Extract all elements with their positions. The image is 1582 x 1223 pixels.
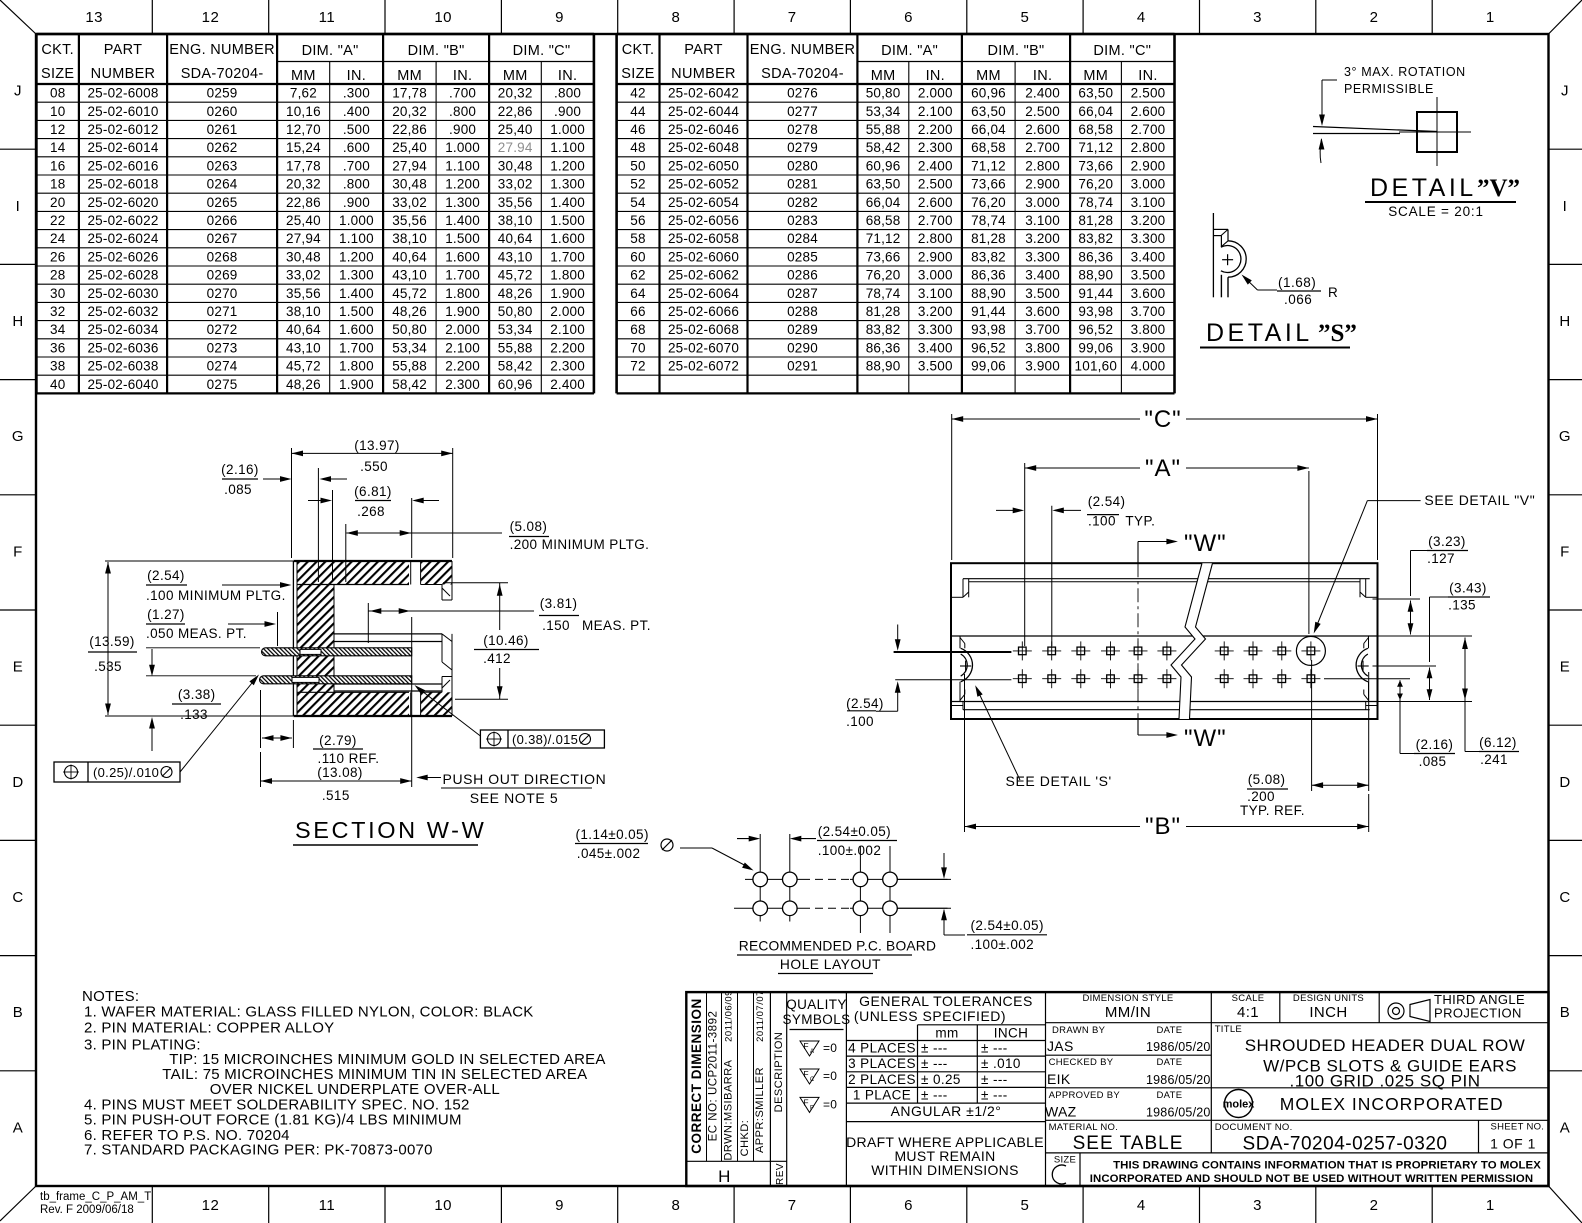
- svg-text:F: F: [803, 1097, 808, 1107]
- svg-text:2.900: 2.900: [918, 249, 953, 264]
- svg-text:1.900: 1.900: [445, 304, 480, 319]
- svg-text:0271: 0271: [207, 304, 238, 319]
- svg-text:2011/07/07: 2011/07/07: [755, 990, 766, 1042]
- svg-text:molex: molex: [1223, 1099, 1256, 1111]
- svg-text:25-02-6010: 25-02-6010: [87, 104, 158, 119]
- svg-text:3.000: 3.000: [1131, 177, 1166, 192]
- svg-text:SEE TABLE: SEE TABLE: [1073, 1133, 1184, 1154]
- svg-text:4: 4: [1137, 9, 1146, 26]
- svg-text:25-02-6062: 25-02-6062: [668, 268, 739, 283]
- svg-text:1.000: 1.000: [339, 213, 374, 228]
- svg-text:DIM. "C": DIM. "C": [513, 43, 571, 59]
- svg-text:11: 11: [319, 9, 336, 26]
- svg-text:25-02-6052: 25-02-6052: [668, 177, 739, 192]
- svg-text:DETAIL: DETAIL: [1206, 319, 1313, 347]
- svg-text:7,62: 7,62: [290, 86, 317, 101]
- svg-text:± ---: ± ---: [981, 1041, 1008, 1056]
- svg-text:78,74: 78,74: [866, 286, 901, 301]
- svg-text:(1.68): (1.68): [1278, 275, 1316, 290]
- svg-text:68: 68: [630, 322, 645, 337]
- svg-text:30,48: 30,48: [286, 249, 321, 264]
- svg-text:15,24: 15,24: [286, 140, 321, 155]
- svg-text:0281: 0281: [787, 177, 818, 192]
- svg-text:SIZE: SIZE: [41, 66, 74, 82]
- svg-text:44: 44: [630, 104, 646, 119]
- svg-text:13: 13: [85, 9, 103, 26]
- svg-text:DIM. "A": DIM. "A": [881, 43, 938, 59]
- svg-text:3.200: 3.200: [1131, 213, 1166, 228]
- svg-text:0260: 0260: [207, 104, 238, 119]
- svg-text:30: 30: [50, 286, 65, 301]
- svg-text:1. WAFER MATERIAL: GLASS FILLE: 1. WAFER MATERIAL: GLASS FILLED NYLON, C…: [84, 1003, 534, 1020]
- svg-text:.412: .412: [483, 651, 511, 666]
- svg-text:20,32: 20,32: [392, 104, 427, 119]
- svg-text:2.900: 2.900: [1131, 158, 1166, 173]
- svg-text:12: 12: [202, 1197, 220, 1214]
- svg-text:CKT.: CKT.: [41, 42, 74, 58]
- svg-text:DOCUMENT NO.: DOCUMENT NO.: [1215, 1122, 1293, 1133]
- svg-text:43,10: 43,10: [392, 268, 427, 283]
- svg-text:72: 72: [630, 359, 645, 374]
- svg-text:99,06: 99,06: [971, 359, 1006, 374]
- svg-text:APPR:SMILLER: APPR:SMILLER: [754, 1067, 766, 1153]
- svg-text:ANGULAR ±1/2°: ANGULAR ±1/2°: [891, 1103, 1002, 1119]
- svg-text:2.500: 2.500: [918, 177, 953, 192]
- svg-text:76,20: 76,20: [866, 268, 901, 283]
- svg-text:1.800: 1.800: [550, 268, 585, 283]
- svg-text:”V”: ”V”: [1477, 175, 1520, 202]
- svg-text:"W": "W": [1184, 530, 1227, 557]
- svg-text:35,56: 35,56: [286, 286, 321, 301]
- svg-text:2.300: 2.300: [918, 140, 953, 155]
- svg-text:RECOMMENDED P.C. BOARD: RECOMMENDED P.C. BOARD: [739, 939, 936, 954]
- svg-text:.045±.002: .045±.002: [577, 846, 641, 861]
- svg-text:1.200: 1.200: [339, 249, 374, 264]
- svg-text:3.400: 3.400: [918, 340, 953, 355]
- svg-text:46: 46: [630, 122, 645, 137]
- svg-text:53,34: 53,34: [498, 322, 533, 337]
- svg-text:H: H: [1559, 313, 1570, 330]
- svg-text:SHEET NO.: SHEET NO.: [1491, 1122, 1545, 1133]
- svg-text:48,26: 48,26: [498, 286, 533, 301]
- svg-text:.085: .085: [1419, 754, 1447, 769]
- svg-text:± ---: ± ---: [921, 1041, 948, 1056]
- svg-text:96,52: 96,52: [971, 340, 1006, 355]
- svg-text:25-02-6060: 25-02-6060: [668, 249, 739, 264]
- svg-text:25-02-6030: 25-02-6030: [87, 286, 158, 301]
- svg-text:9: 9: [555, 1197, 564, 1214]
- svg-text:E: E: [1560, 659, 1571, 676]
- svg-text:52: 52: [630, 177, 645, 192]
- svg-text:TITLE: TITLE: [1215, 1024, 1242, 1035]
- svg-text:81,28: 81,28: [971, 231, 1006, 246]
- svg-text:2 PLACES: 2 PLACES: [848, 1072, 916, 1087]
- svg-text:1.100: 1.100: [339, 231, 374, 246]
- svg-text:22,86: 22,86: [392, 122, 427, 137]
- svg-text:SIZE: SIZE: [1054, 1155, 1076, 1166]
- svg-text:1.400: 1.400: [445, 213, 480, 228]
- svg-text:1.800: 1.800: [445, 286, 480, 301]
- svg-text:27,94: 27,94: [286, 231, 321, 246]
- svg-text:34: 34: [50, 322, 66, 337]
- svg-text:0268: 0268: [207, 249, 238, 264]
- svg-text:NUMBER: NUMBER: [671, 66, 736, 82]
- svg-text:42: 42: [630, 86, 645, 101]
- svg-text:(1.27): (1.27): [147, 607, 185, 622]
- svg-text:25-02-6012: 25-02-6012: [87, 122, 158, 137]
- svg-text:25,40: 25,40: [286, 213, 321, 228]
- svg-text:81,28: 81,28: [866, 304, 901, 319]
- svg-text:12,70: 12,70: [286, 122, 321, 137]
- svg-text:1.300: 1.300: [445, 195, 480, 210]
- svg-text:2.200: 2.200: [550, 340, 585, 355]
- svg-text:.700: .700: [343, 158, 370, 173]
- svg-text:SYMBOLS: SYMBOLS: [782, 1012, 850, 1027]
- svg-text:(6.12): (6.12): [1479, 735, 1517, 750]
- svg-text:0265: 0265: [207, 195, 238, 210]
- svg-text:DATE: DATE: [1157, 1025, 1183, 1036]
- svg-text:3: 3: [1253, 1197, 1262, 1214]
- svg-text:0267: 0267: [207, 231, 238, 246]
- svg-text:25-02-6020: 25-02-6020: [87, 195, 158, 210]
- svg-text:± ---: ± ---: [981, 1072, 1008, 1087]
- svg-text:1.000: 1.000: [550, 122, 585, 137]
- svg-text:.515: .515: [322, 788, 350, 803]
- svg-text:25,40: 25,40: [392, 140, 427, 155]
- svg-text:43,10: 43,10: [286, 340, 321, 355]
- svg-text:83,82: 83,82: [971, 249, 1006, 264]
- svg-text:25-02-6016: 25-02-6016: [87, 158, 158, 173]
- svg-text:73,66: 73,66: [971, 177, 1006, 192]
- svg-text:SDA-70204-: SDA-70204-: [761, 66, 844, 82]
- svg-text:2011/06/09: 2011/06/09: [724, 990, 735, 1042]
- svg-text:25-02-6022: 25-02-6022: [87, 213, 158, 228]
- svg-text:3.000: 3.000: [918, 268, 953, 283]
- svg-text:I: I: [1563, 198, 1568, 215]
- svg-text:27.94: 27.94: [498, 140, 533, 155]
- svg-text:18: 18: [50, 177, 65, 192]
- svg-text:10: 10: [50, 104, 65, 119]
- svg-text:1.000: 1.000: [445, 140, 480, 155]
- svg-text:25-02-6036: 25-02-6036: [87, 340, 158, 355]
- svg-text:SIZE: SIZE: [621, 66, 654, 82]
- svg-text:25-02-6024: 25-02-6024: [87, 231, 158, 246]
- svg-text:.133: .133: [180, 707, 208, 722]
- svg-text:25-02-6038: 25-02-6038: [87, 359, 158, 374]
- svg-text:55,88: 55,88: [392, 359, 427, 374]
- svg-text:38: 38: [50, 359, 65, 374]
- svg-text:.241: .241: [1480, 752, 1508, 767]
- svg-text:CHKD:: CHKD:: [739, 1120, 751, 1157]
- svg-text:2.600: 2.600: [918, 195, 953, 210]
- svg-text:C: C: [1559, 889, 1570, 906]
- svg-text:2.500: 2.500: [1025, 104, 1060, 119]
- svg-text:12: 12: [202, 9, 220, 26]
- svg-text:5: 5: [1020, 1197, 1029, 1214]
- svg-text:DIM. "C": DIM. "C": [1093, 43, 1151, 59]
- svg-text:35,56: 35,56: [392, 213, 427, 228]
- svg-text:3.700: 3.700: [1131, 304, 1166, 319]
- svg-text:EC NO: UCP2011-3892: EC NO: UCP2011-3892: [708, 1011, 720, 1142]
- svg-text:3° MAX. ROTATION: 3° MAX. ROTATION: [1344, 65, 1466, 79]
- svg-text:33,02: 33,02: [286, 268, 321, 283]
- svg-text:.085: .085: [224, 482, 252, 497]
- svg-text:D: D: [1559, 774, 1570, 791]
- svg-text:71,12: 71,12: [866, 231, 901, 246]
- svg-text:1.500: 1.500: [550, 213, 585, 228]
- svg-text:CORRECT DIMENSION: CORRECT DIMENSION: [689, 998, 704, 1154]
- svg-text:MM: MM: [503, 68, 528, 84]
- svg-text:.500: .500: [343, 122, 370, 137]
- svg-text:48,26: 48,26: [286, 377, 321, 392]
- svg-text:0261: 0261: [207, 122, 238, 137]
- svg-text:2.600: 2.600: [1025, 122, 1060, 137]
- svg-text:IN.: IN.: [453, 68, 472, 84]
- svg-text:3.400: 3.400: [1025, 268, 1060, 283]
- svg-text:93,98: 93,98: [1078, 304, 1113, 319]
- svg-text:A: A: [13, 1119, 24, 1136]
- svg-text:=0: =0: [823, 1069, 837, 1083]
- svg-text:101,60: 101,60: [1075, 359, 1118, 374]
- svg-text:.200 MINIMUM PLTG.: .200 MINIMUM PLTG.: [510, 537, 650, 552]
- svg-text:1986/05/20: 1986/05/20: [1146, 1106, 1211, 1120]
- svg-text:2.700: 2.700: [1025, 140, 1060, 155]
- svg-text:0278: 0278: [787, 122, 818, 137]
- svg-text:MM: MM: [976, 68, 1001, 84]
- svg-text:6: 6: [904, 1197, 913, 1214]
- svg-text:0288: 0288: [787, 304, 818, 319]
- svg-text:83,82: 83,82: [866, 322, 901, 337]
- svg-text:(13.97): (13.97): [354, 438, 400, 453]
- svg-text:2.100: 2.100: [445, 340, 480, 355]
- svg-text:(2.54±0.05): (2.54±0.05): [818, 824, 891, 839]
- svg-text:2.800: 2.800: [1025, 158, 1060, 173]
- svg-text:25,40: 25,40: [498, 122, 533, 137]
- svg-text:1: 1: [1486, 1197, 1495, 1214]
- svg-text:R: R: [1328, 285, 1338, 300]
- svg-text:DATE: DATE: [1157, 1090, 1183, 1101]
- svg-text:25-02-6070: 25-02-6070: [668, 340, 739, 355]
- svg-text:"W": "W": [1184, 725, 1227, 752]
- svg-text:SEE DETAIL 'S': SEE DETAIL 'S': [1006, 773, 1112, 789]
- svg-text:26: 26: [50, 249, 65, 264]
- svg-text:B: B: [1560, 1004, 1571, 1021]
- svg-text:(3.38): (3.38): [178, 687, 216, 702]
- svg-text:.100: .100: [846, 714, 874, 729]
- svg-text:1.300: 1.300: [550, 177, 585, 192]
- svg-text:3.200: 3.200: [1025, 231, 1060, 246]
- svg-text:SDA-70204-: SDA-70204-: [181, 66, 264, 82]
- svg-text:0259: 0259: [207, 86, 238, 101]
- svg-text:2.000: 2.000: [918, 86, 953, 101]
- svg-text:A: A: [1560, 1119, 1571, 1136]
- svg-text:25-02-6042: 25-02-6042: [668, 86, 739, 101]
- svg-text:QUALITY: QUALITY: [786, 997, 847, 1012]
- svg-text:0269: 0269: [207, 268, 238, 283]
- svg-text:53,34: 53,34: [392, 340, 427, 355]
- svg-text:2.600: 2.600: [1131, 104, 1166, 119]
- svg-text:3.900: 3.900: [1131, 340, 1166, 355]
- svg-text:.800: .800: [554, 86, 581, 101]
- svg-text:2.400: 2.400: [550, 377, 585, 392]
- svg-text:.600: .600: [343, 140, 370, 155]
- svg-text:2.300: 2.300: [445, 377, 480, 392]
- svg-text:10: 10: [434, 1197, 452, 1214]
- svg-text:14: 14: [50, 140, 66, 155]
- svg-text:48: 48: [630, 140, 645, 155]
- svg-text:(2.16): (2.16): [1416, 737, 1454, 752]
- svg-text:25-02-6008: 25-02-6008: [87, 86, 158, 101]
- svg-text:1.200: 1.200: [550, 158, 585, 173]
- svg-text:96,52: 96,52: [1078, 322, 1113, 337]
- svg-text:25-02-6034: 25-02-6034: [87, 322, 158, 337]
- svg-text:88,90: 88,90: [1078, 268, 1113, 283]
- svg-text:(0.25)/.010: (0.25)/.010: [93, 765, 159, 780]
- svg-text:± ---: ± ---: [921, 1056, 948, 1071]
- svg-text:33,02: 33,02: [392, 195, 427, 210]
- svg-text:0266: 0266: [207, 213, 238, 228]
- svg-text:WITHIN DIMENSIONS: WITHIN DIMENSIONS: [871, 1162, 1018, 1178]
- svg-text:40,64: 40,64: [286, 322, 321, 337]
- svg-text:1986/05/20: 1986/05/20: [1146, 1073, 1211, 1087]
- svg-text:25-02-6066: 25-02-6066: [668, 304, 739, 319]
- svg-text:PUSH OUT DIRECTION: PUSH OUT DIRECTION: [443, 771, 607, 787]
- svg-text:Rev. F 2009/06/18: Rev. F 2009/06/18: [40, 1204, 134, 1216]
- svg-text:0270: 0270: [207, 286, 238, 301]
- svg-text:G: G: [1559, 428, 1571, 445]
- svg-text:7: 7: [788, 9, 797, 26]
- svg-text:71,12: 71,12: [1078, 140, 1113, 155]
- svg-text:3.300: 3.300: [1131, 231, 1166, 246]
- svg-text:71,12: 71,12: [971, 158, 1006, 173]
- svg-text:IN.: IN.: [347, 68, 366, 84]
- svg-text:25-02-6048: 25-02-6048: [668, 140, 739, 155]
- svg-text:INCORPORATED AND SHOULD NOT BE: INCORPORATED AND SHOULD NOT BE USED WITH…: [1090, 1173, 1533, 1185]
- svg-text:2: 2: [1370, 1197, 1379, 1214]
- svg-text:2.400: 2.400: [918, 158, 953, 173]
- svg-text:DETAIL: DETAIL: [1370, 174, 1477, 202]
- svg-text:38,10: 38,10: [286, 304, 321, 319]
- svg-text:(3.81): (3.81): [540, 596, 578, 611]
- svg-text:66: 66: [630, 304, 645, 319]
- svg-text:20: 20: [50, 195, 65, 210]
- svg-text:.900: .900: [449, 122, 476, 137]
- svg-text:INCH: INCH: [994, 1026, 1029, 1041]
- svg-text:J: J: [1561, 83, 1569, 100]
- svg-text:.100 GRID .025 SQ PIN: .100 GRID .025 SQ PIN: [1290, 1072, 1481, 1091]
- svg-text:PART: PART: [684, 42, 723, 58]
- svg-text:78,74: 78,74: [971, 213, 1006, 228]
- svg-text:48,26: 48,26: [392, 304, 427, 319]
- svg-text:1.800: 1.800: [339, 359, 374, 374]
- svg-text:± ---: ± ---: [921, 1088, 948, 1103]
- svg-text:0284: 0284: [787, 231, 818, 246]
- svg-text:4:1: 4:1: [1237, 1004, 1259, 1021]
- svg-text:24: 24: [50, 231, 66, 246]
- svg-text:1.900: 1.900: [550, 286, 585, 301]
- svg-text:16: 16: [50, 158, 65, 173]
- svg-text:DESIGN UNITS: DESIGN UNITS: [1293, 993, 1364, 1004]
- svg-text:1.500: 1.500: [445, 231, 480, 246]
- svg-text:2.700: 2.700: [1131, 122, 1166, 137]
- svg-text:MM: MM: [1083, 68, 1108, 84]
- svg-text:H: H: [12, 313, 23, 330]
- svg-text:4.000: 4.000: [1131, 359, 1166, 374]
- svg-text:5: 5: [1020, 9, 1029, 26]
- svg-text:20,32: 20,32: [498, 86, 533, 101]
- svg-text:17,78: 17,78: [392, 86, 427, 101]
- svg-text:MM: MM: [397, 68, 422, 84]
- svg-text:2: 2: [1370, 9, 1379, 26]
- svg-text:0283: 0283: [787, 213, 818, 228]
- svg-text:(2.79): (2.79): [319, 733, 357, 748]
- svg-text:45,72: 45,72: [286, 359, 321, 374]
- svg-text:3.600: 3.600: [1025, 304, 1060, 319]
- svg-text:MM: MM: [291, 68, 316, 84]
- svg-text:08: 08: [50, 86, 65, 101]
- svg-text:40: 40: [50, 377, 65, 392]
- svg-text:C: C: [810, 1077, 815, 1083]
- svg-text:91,44: 91,44: [971, 304, 1006, 319]
- svg-text:MOLEX INCORPORATED: MOLEX INCORPORATED: [1280, 1094, 1504, 1114]
- svg-text:ENG. NUMBER: ENG. NUMBER: [169, 42, 275, 58]
- svg-text:IN.: IN.: [558, 68, 577, 84]
- svg-text:25-02-6040: 25-02-6040: [87, 377, 158, 392]
- svg-text:MEAS. PT.: MEAS. PT.: [582, 618, 651, 633]
- svg-text:2. PIN MATERIAL: COPPER ALLOY: 2. PIN MATERIAL: COPPER ALLOY: [84, 1020, 334, 1037]
- svg-text:53,34: 53,34: [866, 104, 901, 119]
- svg-text:I: I: [16, 198, 21, 215]
- svg-text:88,90: 88,90: [971, 286, 1006, 301]
- svg-text:25-02-6014: 25-02-6014: [87, 140, 158, 155]
- svg-text:NUMBER: NUMBER: [91, 66, 156, 82]
- svg-text:TYP.: TYP.: [1125, 514, 1155, 529]
- svg-text:1.400: 1.400: [550, 195, 585, 210]
- svg-text:B: B: [13, 1004, 24, 1021]
- svg-text:DIM. "A": DIM. "A": [302, 43, 359, 59]
- svg-text:DIM. "B": DIM. "B": [408, 43, 465, 59]
- svg-text:C: C: [12, 889, 23, 906]
- svg-text:68,58: 68,58: [971, 140, 1006, 155]
- svg-text:DRAWN BY: DRAWN BY: [1052, 1025, 1106, 1036]
- svg-text:E: E: [13, 659, 24, 676]
- svg-text:3.100: 3.100: [918, 286, 953, 301]
- svg-text:.900: .900: [343, 195, 370, 210]
- svg-text:(5.08): (5.08): [510, 519, 548, 534]
- svg-text:"B": "B": [1145, 813, 1181, 840]
- svg-text:10,16: 10,16: [286, 104, 321, 119]
- svg-text:DATE: DATE: [1157, 1057, 1183, 1068]
- svg-text:.268: .268: [357, 504, 385, 519]
- svg-text:58,42: 58,42: [866, 140, 901, 155]
- svg-text:70: 70: [630, 340, 645, 355]
- svg-text:22,86: 22,86: [286, 195, 321, 210]
- svg-text:SHROUDED HEADER DUAL ROW: SHROUDED HEADER DUAL ROW: [1245, 1036, 1526, 1055]
- svg-text:88,90: 88,90: [866, 359, 901, 374]
- svg-text:76,20: 76,20: [1078, 177, 1113, 192]
- svg-text:F: F: [13, 543, 23, 560]
- svg-text:MATERIAL NO.: MATERIAL NO.: [1049, 1122, 1119, 1133]
- svg-text:3.800: 3.800: [1131, 322, 1166, 337]
- svg-text:2.000: 2.000: [550, 304, 585, 319]
- svg-text:mm: mm: [935, 1026, 958, 1041]
- svg-text:3.400: 3.400: [1131, 249, 1166, 264]
- svg-text:(3.23): (3.23): [1428, 534, 1466, 549]
- svg-text:F: F: [803, 1069, 808, 1079]
- svg-text:REV: REV: [775, 1163, 786, 1185]
- svg-text:38,10: 38,10: [392, 231, 427, 246]
- svg-text:A: A: [810, 1049, 814, 1055]
